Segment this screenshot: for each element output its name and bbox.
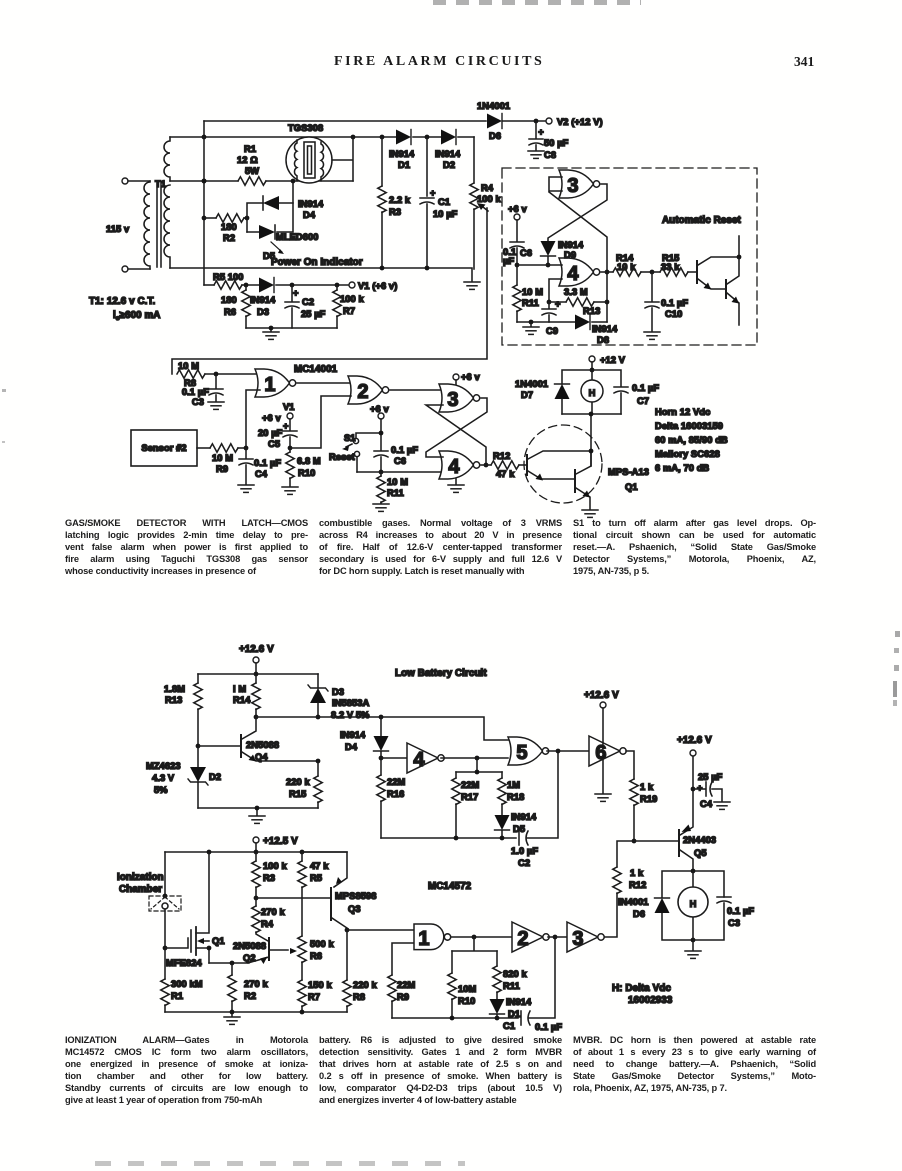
- resistor R1 12 ohm 5W: [237, 144, 266, 185]
- transistor Q2 2N5088: [233, 938, 297, 963]
- svg-text:10 µF: 10 µF: [433, 209, 458, 219]
- svg-text:0.1 µF: 0.1 µF: [727, 906, 754, 916]
- svg-text:+12.5 V: +12.5 V: [263, 836, 298, 847]
- resistor R2 180: [204, 214, 247, 243]
- wire centre-tap rail: [170, 179, 353, 184]
- svg-text:R7: R7: [308, 992, 320, 1002]
- svg-text:1N4001: 1N4001: [515, 379, 548, 389]
- svg-text:V2 (+12 V): V2 (+12 V): [557, 117, 603, 127]
- svg-text:+6 v: +6 v: [370, 404, 389, 414]
- svg-text:C3: C3: [728, 918, 740, 928]
- wire TGS right side to rail B: [332, 137, 353, 181]
- resistor R3 100k: [252, 852, 288, 900]
- svg-text:R2: R2: [223, 233, 235, 243]
- wire 0V rail: [170, 266, 472, 281]
- capacitor C4 0.1uF: [239, 448, 281, 484]
- capacitor C5 20uF: [258, 421, 297, 450]
- capacitor C4 25uF: [691, 772, 723, 809]
- svg-text:C6: C6: [394, 456, 406, 466]
- resistor R15 33k: [650, 253, 697, 276]
- diode D7 1N4001: [515, 370, 592, 414]
- transistor Q5 2N4403: [634, 756, 716, 871]
- node V1 terminal: [349, 281, 397, 291]
- svg-text:Q4: Q4: [255, 752, 268, 762]
- transistor Q4 2N5088: [196, 717, 318, 762]
- svg-text:8.2 V 5%: 8.2 V 5%: [331, 710, 370, 720]
- svg-text:270 k: 270 k: [261, 907, 285, 917]
- transformer T1 primary input terminal lower: [122, 266, 150, 272]
- svg-text:100 k: 100 k: [340, 294, 364, 304]
- ground below C4: [714, 802, 730, 809]
- diode D6 IN4001: [618, 897, 670, 919]
- svg-text:MC14001: MC14001: [294, 364, 338, 375]
- switch S1 Reset: [329, 433, 381, 472]
- ground low battery comparator: [249, 816, 265, 823]
- svg-text:R6: R6: [310, 951, 322, 961]
- wire gate2 output to gate3: [390, 389, 441, 391]
- svg-text:820 k: 820 k: [503, 969, 527, 979]
- svg-text:R1: R1: [171, 991, 183, 1001]
- transistor Q1 MPS-A13 darlington dashed circle: [524, 425, 602, 503]
- svg-text:+: +: [293, 288, 299, 298]
- ground below R11: [373, 504, 389, 511]
- svg-text:Chamber: Chamber: [119, 884, 162, 895]
- inverter gate 3 circuit2: [548, 922, 604, 952]
- terminal +12.6V Q5: [677, 735, 712, 756]
- wire gate5 output to gate6: [547, 750, 589, 752]
- svg-text:10 M: 10 M: [522, 287, 543, 297]
- ground below Q1: [582, 510, 598, 517]
- svg-text:Low Battery Circuit: Low Battery Circuit: [395, 668, 487, 679]
- svg-text:R13: R13: [165, 695, 182, 705]
- resistor R1 300kM: [161, 948, 203, 1012]
- wire reset bottom rail: [517, 320, 607, 325]
- wire R4 wiper to latch input: [172, 208, 487, 374]
- svg-text:+12 V: +12 V: [600, 355, 626, 365]
- resistor R7 150k: [298, 980, 333, 1012]
- svg-text:R10: R10: [298, 468, 315, 478]
- ground below horn circuit2: [685, 940, 701, 958]
- capacitor C1 0.1uF circuit2: [503, 1011, 562, 1032]
- svg-text:100 k: 100 k: [477, 194, 501, 204]
- resistor R8 10M: [177, 361, 260, 388]
- svg-text:4: 4: [413, 749, 425, 771]
- svg-text:500 k: 500 k: [310, 939, 334, 949]
- resistor R10 6.8M: [286, 448, 321, 486]
- svg-text:25 µF: 25 µF: [301, 309, 326, 319]
- resistor R3 2.2k: [378, 137, 411, 269]
- svg-text:D6: D6: [489, 131, 501, 141]
- resistor R5 47k: [298, 852, 329, 936]
- svg-text:6.8 M: 6.8 M: [297, 456, 321, 466]
- svg-text:R1: R1: [244, 144, 256, 154]
- svg-text:IN4001: IN4001: [618, 897, 649, 907]
- ground below D3 network: [263, 332, 279, 339]
- wire gate1 output to gate2: [297, 382, 351, 384]
- reset output transistor pair: [697, 236, 741, 325]
- resistor R13 1.8M: [164, 674, 202, 746]
- svg-text:T1: 12.6 v C.T.: T1: 12.6 v C.T.: [89, 296, 155, 307]
- svg-text:0.1 µF: 0.1 µF: [391, 445, 418, 455]
- svg-text:0.1 µF: 0.1 µF: [535, 1022, 562, 1032]
- svg-text:220 k: 220 k: [353, 980, 377, 990]
- svg-text:+12.6 V: +12.6 V: [584, 690, 619, 701]
- svg-text:3.3 M: 3.3 M: [564, 287, 588, 297]
- zener D3 IN5853A: [308, 674, 370, 720]
- svg-text:25 µF: 25 µF: [698, 772, 723, 782]
- svg-text:C6: C6: [520, 248, 532, 258]
- svg-text:5W: 5W: [245, 166, 259, 176]
- svg-text:R5 100: R5 100: [213, 272, 244, 282]
- svg-text:Automatic Reset: Automatic Reset: [662, 215, 741, 226]
- svg-text:3: 3: [572, 928, 583, 950]
- wire ionization top rail: [165, 850, 347, 855]
- svg-text:is≥600 mA: is≥600 mA: [113, 310, 160, 322]
- gas sensor TGS308: [286, 123, 332, 183]
- left margin specks: [2, 389, 6, 392]
- svg-text:+6 v: +6 v: [508, 204, 527, 214]
- svg-text:TGS308: TGS308: [288, 123, 323, 133]
- svg-text:IN914: IN914: [558, 240, 584, 250]
- svg-text:C9: C9: [546, 326, 558, 336]
- svg-text:D2: D2: [443, 160, 455, 170]
- svg-text:C7: C7: [637, 396, 649, 406]
- svg-text:V1: V1: [283, 402, 295, 412]
- svg-text:V1 (+6 v): V1 (+6 v): [358, 281, 397, 291]
- svg-text:10 M: 10 M: [178, 361, 199, 371]
- zener D2 MZ4623: [146, 746, 221, 808]
- NOR gate 4: [439, 451, 480, 479]
- svg-text:Delta 16003159: Delta 16003159: [655, 421, 723, 431]
- svg-text:C4: C4: [700, 799, 713, 809]
- svg-text:2.2 k: 2.2 k: [389, 195, 411, 205]
- bottom edge cut-off print artifact: [95, 1161, 465, 1166]
- ground below C3: [208, 402, 224, 409]
- svg-text:33 k: 33 k: [661, 262, 680, 272]
- svg-text:2N4403: 2N4403: [683, 835, 716, 845]
- dashed box Automatic Reset: [502, 168, 757, 345]
- svg-text:+: +: [538, 127, 544, 137]
- svg-text:IN914: IN914: [340, 730, 366, 740]
- svg-text:H: H: [690, 899, 697, 909]
- wire 8.2V comparator rail: [256, 715, 508, 740]
- caption 2 column 1: [65, 1035, 308, 1106]
- svg-text:D3: D3: [257, 307, 269, 317]
- wire left bus vertical: [202, 137, 207, 285]
- svg-text:IN914: IN914: [592, 324, 618, 334]
- wire rail A top: [204, 121, 546, 137]
- svg-text:C3: C3: [192, 397, 204, 407]
- svg-text:IN914: IN914: [298, 199, 324, 209]
- svg-text:R13: R13: [583, 306, 600, 316]
- wire low battery top rail: [198, 673, 318, 675]
- svg-text:C2: C2: [518, 858, 530, 868]
- svg-text:R9: R9: [397, 992, 409, 1002]
- svg-text:+12.6 V: +12.6 V: [677, 735, 712, 746]
- svg-text:180: 180: [221, 295, 237, 305]
- svg-text:T1: T1: [155, 179, 166, 189]
- svg-text:D1: D1: [398, 160, 410, 170]
- capacitor C10 0.1uF: [645, 272, 688, 331]
- transformer T1 secondary winding lower half: [164, 185, 170, 268]
- capacitor C7 0.1uF: [592, 370, 659, 414]
- svg-text:D7: D7: [521, 390, 533, 400]
- resistor R4 270k: [252, 898, 286, 941]
- svg-text:0.1 µF: 0.1 µF: [632, 383, 659, 393]
- svg-text:60 mA, 85/90 dB: 60 mA, 85/90 dB: [655, 435, 728, 445]
- transformer T1 primary input terminal upper: [122, 178, 150, 184]
- svg-text:50 µF: 50 µF: [544, 138, 569, 148]
- svg-text:R12: R12: [629, 880, 646, 890]
- svg-text:IN914: IN914: [389, 149, 415, 159]
- svg-text:+12.6 V: +12.6 V: [239, 644, 274, 655]
- diode D4 IN914 (points left): [245, 196, 324, 232]
- svg-text:1: 1: [418, 928, 429, 950]
- top edge cut-off print artifact: [433, 0, 641, 5]
- svg-text:22M: 22M: [387, 777, 406, 787]
- svg-text:D9: D9: [564, 250, 576, 260]
- transistor Q1 first stage: [527, 451, 591, 481]
- resistor R6 500k pot: [298, 936, 335, 980]
- inverter gate 4 low battery: [381, 743, 444, 773]
- caption 1 column 1: [65, 518, 308, 578]
- svg-text:Power On Indicator: Power On Indicator: [271, 257, 363, 268]
- terminal +6v above gate3: [453, 372, 480, 386]
- ground below gate 4: [448, 479, 464, 492]
- caption 1 column 3: [573, 518, 816, 578]
- diode D5 IN914: [495, 812, 538, 838]
- terminal +12.6V low battery: [239, 644, 274, 676]
- svg-text:C2: C2: [302, 297, 314, 307]
- resistor R12 1k circuit2: [604, 839, 646, 937]
- resistor R6 180: [221, 285, 250, 328]
- node V2 output terminal: [534, 117, 603, 127]
- svg-text:MFE824: MFE824: [166, 958, 202, 968]
- inverter gate 2 circuit2: [512, 922, 549, 952]
- R4 wiper arrow: [477, 203, 488, 211]
- wire C6-D9 node to gate4 reset input: [517, 264, 562, 266]
- svg-text:2: 2: [517, 928, 528, 950]
- LED D5 MLED600: [247, 179, 319, 261]
- inverter gate 6: [589, 736, 626, 766]
- svg-text:+: +: [430, 188, 436, 198]
- transformer T1 primary winding: [144, 181, 150, 269]
- resistor R14 10k: [601, 253, 652, 276]
- svg-text:0.1 µF: 0.1 µF: [661, 298, 688, 308]
- svg-text:D4: D4: [345, 742, 358, 752]
- horn H circle: [581, 370, 603, 414]
- wire C5 node to gate2 lower input: [290, 396, 351, 448]
- svg-text:MLED600: MLED600: [276, 232, 319, 242]
- svg-text:IN914: IN914: [250, 295, 276, 305]
- capacitor C8 50uF: [529, 121, 569, 160]
- svg-text:R11: R11: [387, 488, 404, 498]
- svg-text:R7: R7: [343, 306, 355, 316]
- svg-text:22M: 22M: [461, 780, 480, 790]
- svg-text:MPS-A13: MPS-A13: [608, 467, 649, 477]
- capacitor C9: [542, 299, 561, 336]
- svg-text:+: +: [697, 783, 703, 793]
- svg-text:IN914: IN914: [435, 149, 461, 159]
- svg-text:R18: R18: [507, 792, 524, 802]
- ground reset box: [523, 322, 539, 334]
- transformer T1 secondary winding upper half: [164, 137, 170, 181]
- NOR gate 2: [348, 376, 389, 404]
- reset latch input/cross wires: [548, 177, 609, 322]
- svg-text:20 µF: 20 µF: [258, 428, 283, 438]
- svg-text:C1: C1: [503, 1021, 515, 1031]
- capacitor C1 10uF: [420, 137, 458, 269]
- resistor R11 820k circuit2: [493, 951, 528, 999]
- svg-text:1: 1: [264, 374, 275, 396]
- svg-text:1 k: 1 k: [640, 782, 654, 792]
- wire Q3 base line: [256, 897, 330, 899]
- resistor R19 1k: [626, 751, 657, 841]
- label MPS-A13 Q1: [608, 467, 649, 492]
- horn spec text: [655, 407, 728, 473]
- svg-text:+: +: [555, 299, 561, 309]
- svg-text:R4: R4: [261, 919, 274, 929]
- svg-text:C8: C8: [544, 150, 556, 160]
- transistor Q1 MFE824 mosfet: [163, 852, 225, 968]
- diode D4 IN914 low battery: [340, 717, 389, 760]
- svg-text:4: 4: [567, 263, 579, 285]
- capacitor C3 0.1uF: [182, 374, 223, 407]
- svg-text:+6 v: +6 v: [262, 413, 281, 423]
- svg-text:10 M: 10 M: [212, 453, 233, 463]
- NOR gate 1 MC14001: [255, 369, 296, 397]
- svg-text:R14: R14: [233, 695, 251, 705]
- wire S1/C6 node to gate4 lower input: [357, 471, 443, 473]
- caption 1 column 2: [319, 518, 562, 578]
- svg-text:3: 3: [567, 175, 578, 197]
- diode D6 1N4001: [477, 101, 510, 141]
- svg-text:S1: S1: [344, 433, 356, 443]
- resistor R7 100k: [333, 285, 365, 328]
- wire horn bottom node to Q1 collector: [562, 412, 621, 466]
- svg-text:C10: C10: [665, 309, 682, 319]
- right margin cut-off marks: [895, 631, 900, 637]
- svg-text:6: 6: [595, 742, 606, 764]
- svg-text:Horn 12 Vdc: Horn 12 Vdc: [655, 407, 710, 417]
- svg-text:C1: C1: [438, 197, 450, 207]
- svg-text:D8: D8: [597, 335, 609, 345]
- svg-text:MC14572: MC14572: [428, 881, 472, 892]
- svg-text:Mallory SC628: Mallory SC628: [655, 449, 720, 459]
- wire ionization bottom rail with ground: [165, 1010, 347, 1016]
- svg-text:47 k: 47 k: [310, 861, 329, 871]
- svg-text:Ionization: Ionization: [117, 872, 164, 883]
- wire MVBR2 feedback rail with capacitor C1: [392, 935, 557, 1021]
- svg-text:1 k: 1 k: [630, 868, 644, 878]
- svg-text:D4: D4: [303, 210, 316, 220]
- wire gate1 output to gate2 circuit2: [451, 935, 512, 940]
- svg-text:R19: R19: [640, 794, 657, 804]
- horn box circuit2: [662, 869, 724, 943]
- svg-text:3: 3: [447, 389, 458, 411]
- resistor R14 1M: [233, 674, 260, 719]
- svg-text:Q1: Q1: [212, 936, 225, 946]
- svg-text:R12: R12: [493, 451, 510, 461]
- resistor R11 10M: [377, 472, 408, 503]
- diode D8 IN914: [575, 315, 618, 346]
- svg-text:180: 180: [221, 222, 237, 232]
- svg-text:2N5088: 2N5088: [246, 740, 279, 750]
- resistor R15 220k: [286, 759, 322, 808]
- terminal +12.5V ionization: [253, 836, 298, 854]
- svg-text:1N4001: 1N4001: [477, 101, 510, 111]
- svg-text:1M: 1M: [507, 780, 520, 790]
- capacitor C6 0.1uF: [374, 445, 418, 474]
- svg-text:Q1: Q1: [625, 482, 638, 492]
- svg-text:R4: R4: [481, 183, 494, 193]
- svg-text:R15: R15: [289, 789, 306, 799]
- svg-text:5%: 5%: [154, 785, 168, 795]
- svg-text:4.3 V: 4.3 V: [152, 773, 175, 783]
- diode D9 IN914: [541, 240, 585, 267]
- svg-text:C5: C5: [268, 439, 280, 449]
- terminal +12V horn supply: [589, 355, 626, 372]
- svg-text:270 k: 270 k: [244, 979, 268, 989]
- label H: Delta Vdc 16002933: [612, 983, 673, 1006]
- latch cross-coupling wires: [426, 398, 487, 465]
- page number 341: [794, 54, 814, 70]
- NOR gate 5: [508, 737, 549, 765]
- diode D3 IN914: [250, 278, 349, 318]
- svg-text:I M: I M: [233, 684, 246, 694]
- resistor R16 22M: [377, 758, 406, 838]
- svg-text:47 k: 47 k: [496, 469, 515, 479]
- svg-text:MZ4623: MZ4623: [146, 761, 181, 771]
- svg-text:150 k: 150 k: [308, 980, 332, 990]
- wire gate4 output to gate5: [441, 756, 508, 761]
- svg-text:Reset: Reset: [329, 452, 355, 462]
- transformer T1 core: [157, 183, 161, 267]
- wire rail B secondary top: [170, 135, 474, 140]
- diode D1 IN914: [389, 130, 415, 171]
- terminal +6v reset box: [508, 204, 527, 241]
- resistor R17 22M: [452, 758, 502, 838]
- svg-text:R3: R3: [263, 873, 275, 883]
- ground below gate6: [595, 759, 611, 801]
- NOR gate 3: [439, 384, 480, 412]
- svg-text:10M: 10M: [458, 984, 477, 994]
- ground below C8: [528, 151, 544, 158]
- wire Q1 source to Q2 emitter: [209, 957, 269, 966]
- svg-text:2: 2: [357, 381, 368, 403]
- caption 2 column 2: [319, 1035, 562, 1106]
- svg-text:R10: R10: [458, 996, 475, 1006]
- wire R6-C2-R7 bottom with ground: [246, 326, 337, 331]
- svg-text:R8: R8: [353, 992, 365, 1002]
- NAND gate 1 circuit2: [347, 924, 451, 975]
- gate4 reset lower input and R13 3.3M: [547, 279, 607, 316]
- terminal +12.6V gate6: [584, 690, 619, 744]
- transistor Q1 second stage: [575, 451, 591, 509]
- svg-text:C4: C4: [255, 469, 268, 479]
- svg-text:1.8M: 1.8M: [164, 684, 185, 694]
- wire low battery bottom rail with ground: [198, 806, 318, 815]
- terminal V1 +6v: [262, 402, 295, 430]
- svg-text:D6: D6: [633, 909, 645, 919]
- svg-text:Sensor #2: Sensor #2: [141, 443, 186, 453]
- svg-text:5: 5: [516, 742, 527, 764]
- capacitor C6 reset 0.1uF: [503, 242, 532, 267]
- svg-text:1.0 µF: 1.0 µF: [511, 846, 538, 856]
- svg-text:H: H: [589, 388, 596, 398]
- svg-text:IN5853A: IN5853A: [332, 698, 370, 708]
- svg-text:16002933: 16002933: [628, 995, 673, 1006]
